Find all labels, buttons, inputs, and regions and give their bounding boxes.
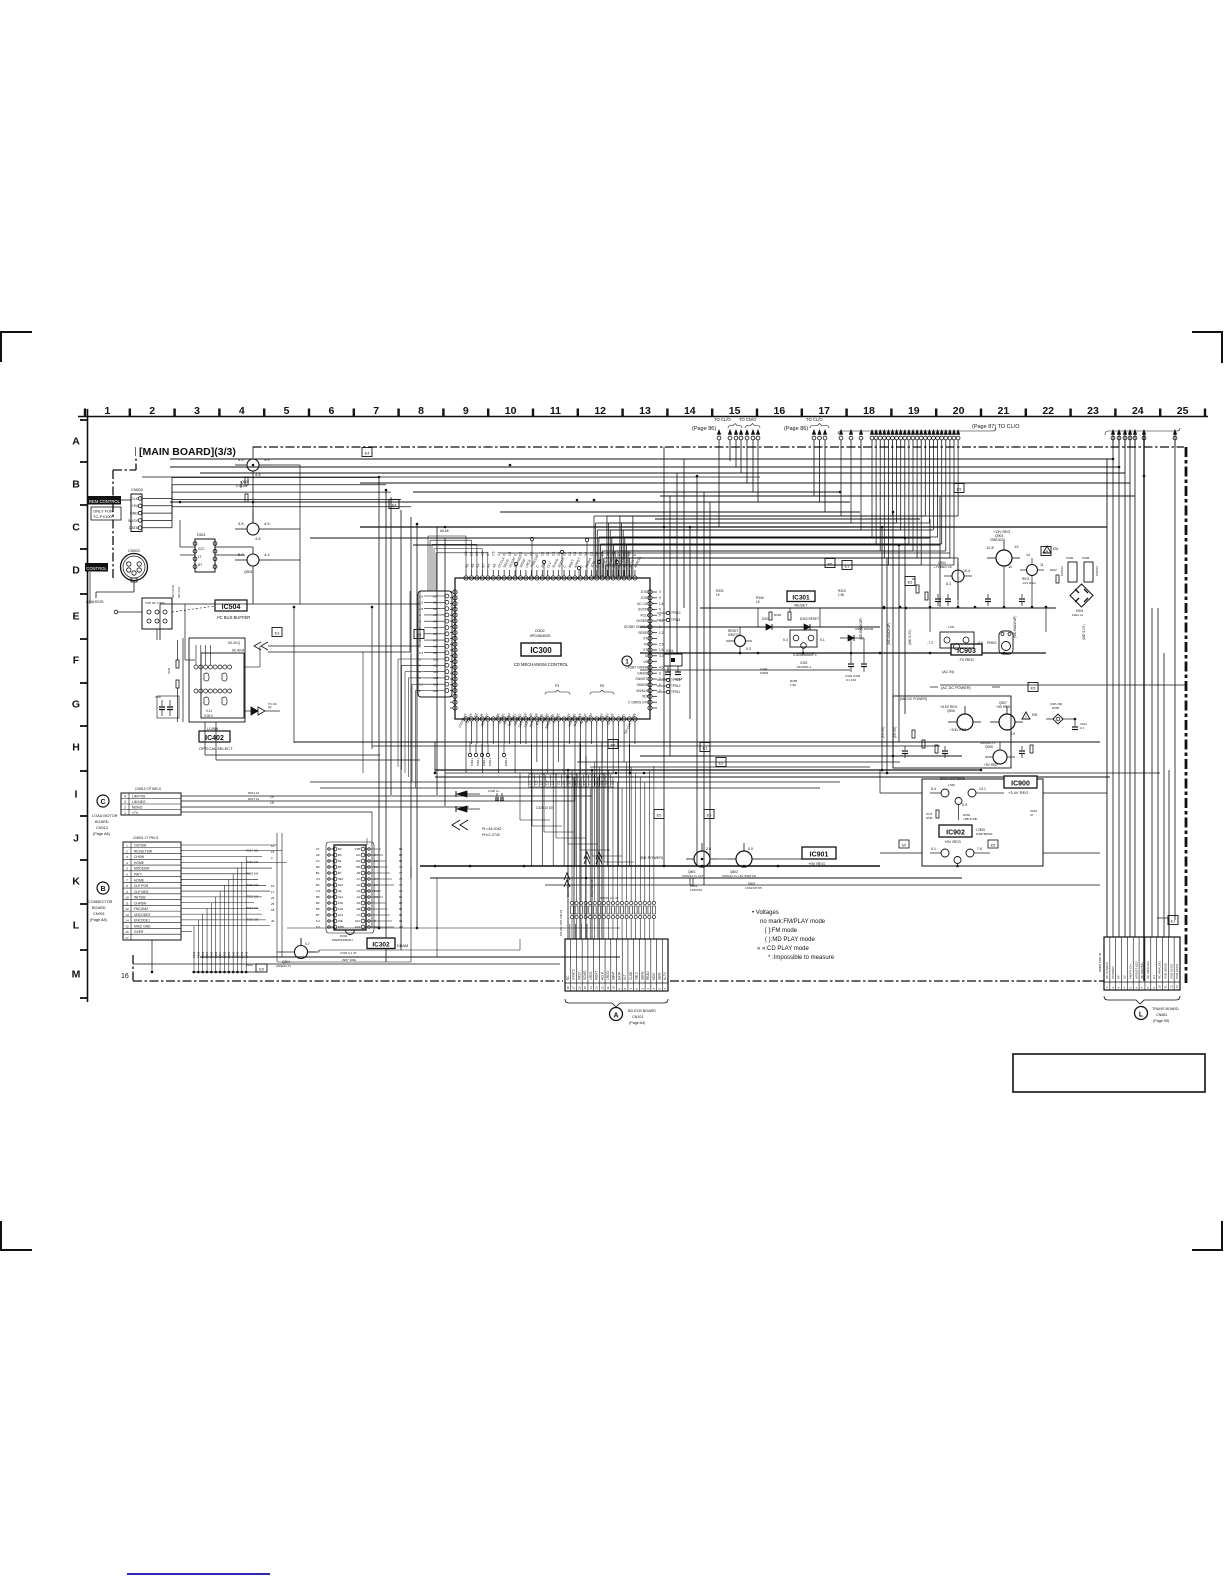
svg-text:(AC DC POWER): (AC DC POWER)	[941, 686, 971, 690]
svg-text:83: 83	[399, 907, 403, 911]
svg-text:A3: A3	[356, 889, 360, 893]
svg-text:A7: A7	[356, 877, 360, 881]
svg-text:(Page 86): (Page 86)	[692, 426, 716, 432]
svg-text:HOME: HOME	[134, 861, 145, 865]
svg-text:0: 0	[659, 596, 661, 600]
reset area resistors	[716, 589, 874, 687]
svg-text:1A0: 1A0	[338, 901, 344, 905]
IC302 right row wires	[367, 838, 394, 927]
left ruler line	[87, 409, 89, 1002]
svg-text:BUSY: BUSY	[128, 519, 138, 523]
svg-text:R937: R937	[218, 951, 222, 958]
svg-text:+5V RED: +5V RED	[984, 763, 998, 767]
connector A circled letter	[610, 1008, 623, 1021]
transistor Q904	[934, 561, 972, 586]
svg-text:E5: E5	[1044, 551, 1049, 555]
crop mark top-left	[1, 332, 32, 362]
connector A table	[565, 939, 668, 991]
svg-text:3.9: 3.9	[1010, 732, 1015, 736]
svg-text:AC ANALOG: AC ANALOG	[1146, 961, 1150, 979]
svg-text:TP902: TP902	[476, 758, 480, 767]
svg-text:TC-PX100: TC-PX100	[93, 514, 112, 519]
svg-text:D302 RESET: D302 RESET	[800, 617, 819, 621]
svg-text:C40: C40	[155, 695, 161, 699]
svg-text:CN901: CN901	[93, 912, 105, 916]
svg-text:E4: E4	[365, 452, 370, 456]
svg-text:5.3: 5.3	[783, 638, 788, 642]
svg-text:TO CN/O: TO CN/O	[739, 417, 757, 422]
svg-text:CLOK: CLOK	[629, 970, 633, 980]
svg-text:-7V REG: -7V REG	[958, 657, 974, 662]
svg-text:4.5: 4.5	[264, 521, 270, 526]
IC300 bottom deep wires	[466, 726, 635, 866]
svg-text:SBMT: SBMT	[612, 971, 616, 980]
svg-text:4.4: 4.4	[628, 551, 632, 556]
svg-text:WDAT: WDAT	[595, 971, 599, 980]
connector A rotated signal names	[566, 969, 667, 989]
connector L table	[1104, 937, 1180, 990]
svg-text:+5.5V REG: +5.5V REG	[950, 728, 967, 732]
connector B vertical drops with resistors	[192, 857, 248, 974]
svg-text:GN/KS3: GN/KS3	[637, 671, 649, 675]
svg-text:SENS: SENS	[640, 971, 644, 980]
svg-text:I²C BUS BUFFER: I²C BUS BUFFER	[217, 615, 250, 620]
vertical bundle from top group3 into IC300	[594, 447, 958, 577]
svg-text:R501: R501	[239, 481, 243, 489]
svg-text:E51: E51	[1053, 547, 1059, 551]
svg-text:IC900: IC900	[1011, 781, 1030, 788]
svg-text:E2: E2	[611, 744, 616, 748]
svg-text:K: K	[72, 876, 80, 888]
svg-text:2: 2	[124, 806, 126, 810]
svg-text:2907 100u: 2907 100u	[342, 958, 357, 962]
svg-text:12: 12	[600, 986, 604, 990]
svg-text:C: C	[100, 799, 105, 806]
svg-text:IC301: IC301	[792, 595, 810, 602]
extra stair wires below IC300	[435, 742, 634, 862]
svg-text:10E1 x4: 10E1 x4	[1072, 613, 1083, 617]
transistor Q502	[235, 510, 272, 541]
svg-text:G: G	[72, 699, 80, 711]
svg-text:A6 A8: A6 A8	[440, 529, 449, 533]
warning triangle 2	[1022, 712, 1038, 719]
svg-text:IC901: IC901	[810, 852, 829, 859]
wire IC504 area	[114, 585, 181, 640]
svg-text:CD MECHANISM CONTROL: CD MECHANISM CONTROL	[514, 662, 569, 667]
svg-text:CLP POS: CLP POS	[134, 884, 149, 888]
svg-text:7: 7	[373, 405, 379, 417]
notes box bottom-right	[1013, 1054, 1205, 1092]
relay area frame	[922, 779, 1043, 866]
group 1 brace	[728, 424, 742, 429]
svg-text:SUB GH01: SUB GH01	[1169, 963, 1173, 979]
svg-text:E5: E5	[707, 814, 712, 818]
svg-text:S0.40.Q: S0.40.Q	[228, 641, 241, 645]
svg-text:(MD 5.0V): (MD 5.0V)	[908, 630, 912, 645]
svg-text:GVSTO: GVSTO	[638, 608, 650, 612]
svg-text:A9: A9	[433, 651, 437, 655]
svg-text:2.5: 2.5	[600, 780, 604, 785]
svg-text:C2: C2	[645, 654, 649, 658]
IC300 body	[455, 578, 650, 719]
trunk under B	[192, 964, 267, 972]
svg-text:BD ECB BOARD: BD ECB BOARD	[628, 1009, 656, 1013]
IC300 bottom pins	[464, 717, 637, 726]
svg-text:7: 7	[126, 878, 128, 882]
svg-text:BOARD: BOARD	[92, 906, 106, 910]
svg-text:RESET: RESET	[638, 631, 649, 635]
svg-text:4.6: 4.6	[611, 551, 615, 556]
resistor array above connector A	[566, 762, 656, 939]
AC DC POWER header label	[930, 686, 1000, 690]
PL frequency note	[482, 827, 502, 837]
transistor Q905 pnp	[1020, 553, 1044, 585]
svg-text:2V: 2V	[316, 859, 320, 863]
IC900 area details	[926, 805, 1038, 822]
svg-text:1.5K: 1.5K	[790, 683, 796, 687]
IC903 label	[951, 644, 982, 662]
svg-text:C1: C1	[1152, 975, 1156, 979]
double chevron out	[244, 702, 280, 715]
svg-text:(BD POWER): (BD POWER)	[640, 856, 664, 860]
svg-text:(MD 5.0V): (MD 5.0V)	[1082, 625, 1086, 640]
svg-text:( ):MD PLAY mode: ( ):MD PLAY mode	[765, 937, 815, 943]
IC902 label	[939, 825, 993, 844]
svg-text:A8: A8	[433, 645, 437, 649]
connector C circled letter	[97, 795, 109, 807]
svg-text:UN9211-TL: UN9211-TL	[276, 964, 292, 968]
horizontal trunk bus lower block	[133, 866, 1100, 964]
svg-text:R926 10k: R926 10k	[246, 917, 259, 921]
svg-text:1000/16: 1000/16	[1060, 565, 1064, 576]
svg-text:+9V REG: +9V REG	[808, 861, 825, 866]
svg-text:A10: A10	[433, 657, 439, 661]
CONTROL label	[85, 563, 108, 572]
vertical bundle from top group1	[719, 447, 758, 527]
svg-text:A11: A11	[433, 664, 438, 668]
svg-text:F: F	[73, 655, 80, 667]
svg-text:JOG0: JOG0	[641, 596, 650, 600]
power block caps	[902, 746, 1025, 758]
svg-text:2.1: 2.1	[590, 551, 594, 556]
crop mark top-right	[1192, 332, 1222, 363]
vertical bundle mid to connector A	[568, 742, 602, 939]
svg-text:24: 24	[271, 896, 275, 900]
svg-text:13: 13	[1014, 544, 1019, 549]
svg-text:MISC GND: MISC GND	[134, 924, 151, 928]
svg-text:10504: 10504	[760, 671, 769, 675]
svg-text:A7: A7	[316, 847, 320, 851]
svg-text:17: 17	[125, 936, 129, 940]
svg-text:Y00: Y00	[643, 642, 649, 646]
cap C911	[1072, 718, 1087, 730]
svg-text:3.1: 3.1	[579, 551, 583, 556]
up chevrons near connector A	[564, 852, 602, 887]
svg-text:C326 1u: C326 1u	[488, 789, 500, 793]
svg-text:CN901 17 PIN-S: CN901 17 PIN-S	[133, 836, 159, 840]
svg-text:IC302: IC302	[372, 942, 390, 949]
svg-text:0: 0	[524, 554, 528, 556]
svg-text:BOARD: BOARD	[95, 820, 109, 824]
diode D302	[796, 617, 820, 630]
svg-text:17: 17	[818, 405, 830, 417]
IC300 bottom pin labels	[457, 712, 637, 735]
svg-text:E51: E51	[1032, 713, 1038, 717]
svg-text:TO CL/O: TO CL/O	[714, 417, 731, 422]
svg-text:13: 13	[1175, 985, 1179, 989]
svg-text:4.6: 4.6	[659, 666, 664, 670]
svg-text:3.2: 3.2	[659, 654, 664, 658]
svg-text:(Page A8): (Page A8)	[93, 832, 111, 836]
svg-text:(Page 86): (Page 86)	[784, 426, 808, 432]
svg-text:9: 9	[126, 890, 128, 894]
svg-text:A7: A7	[356, 913, 360, 917]
IC900 regulator symbol	[930, 777, 990, 807]
left mid vertical wires	[362, 652, 364, 773]
svg-text:R920 10k: R920 10k	[246, 883, 259, 887]
svg-text:3: 3	[124, 800, 126, 804]
svg-text:1.8: 1.8	[659, 648, 664, 652]
svg-text:B: B	[72, 479, 80, 491]
svg-text:MSM514400DJ: MSM514400DJ	[332, 938, 353, 942]
svg-text:« »:CD PLAY mode: « »:CD PLAY mode	[757, 946, 809, 952]
svg-text:IC300: IC300	[530, 646, 552, 655]
svg-text:!: !	[1025, 715, 1026, 719]
svg-text:0: 0	[659, 683, 661, 687]
svg-text:M-7V: M-7V	[663, 972, 667, 980]
connector L brace	[1104, 996, 1180, 1004]
wires DIP to bundle	[180, 520, 253, 555]
svg-text:E2: E2	[417, 634, 422, 638]
svg-text:0: 0	[502, 554, 506, 556]
svg-text:94: 94	[399, 913, 403, 917]
svg-text:10: 10	[612, 986, 616, 990]
svg-text:3: 3	[194, 405, 200, 417]
svg-text:16: 16	[774, 405, 786, 417]
svg-text:B1: B1	[356, 859, 360, 863]
IC300 top pins	[464, 570, 637, 580]
svg-text:0: 0	[633, 554, 637, 556]
svg-text:12: 12	[594, 405, 606, 417]
power area caps small	[935, 594, 1025, 606]
svg-text:14: 14	[589, 986, 593, 990]
DRAM loop wires	[277, 833, 620, 962]
svg-text:C304 0.1 4T: C304 0.1 4T	[340, 951, 357, 955]
svg-text:XCMD: XCMD	[583, 970, 587, 980]
svg-text:74: 74	[399, 865, 403, 869]
svg-text:HOME: HOME	[134, 878, 145, 882]
svg-text:17: 17	[271, 890, 275, 894]
svg-text:1A6: 1A6	[338, 907, 344, 911]
junction dots on trunks	[151, 458, 1146, 974]
svg-text:R935: R935	[210, 951, 214, 958]
svg-text:A0: A0	[433, 594, 437, 598]
svg-text:RF: RF	[268, 706, 272, 710]
svg-text:5.1: 5.1	[820, 638, 825, 642]
transistor Q801	[682, 843, 718, 878]
connector C caption	[92, 814, 118, 836]
transistor Q802	[722, 843, 760, 878]
svg-text:2.8: 2.8	[419, 607, 424, 611]
power area resistors small	[912, 568, 1059, 600]
MAIN BOARD title	[136, 440, 252, 458]
svg-text:R943: R943	[244, 951, 248, 958]
svg-text:4.6: 4.6	[399, 925, 403, 929]
svg-text:CN502: CN502	[128, 549, 140, 553]
svg-text:VTUNER: VTUNER	[1111, 966, 1115, 979]
svg-text:D302: D302	[535, 628, 545, 633]
svg-text:4.8: 4.8	[595, 551, 599, 556]
svg-text:2.5: 2.5	[659, 642, 664, 646]
IC402 left parts R-ladder	[167, 638, 183, 722]
svg-text:RA901 0.1 4T: RA901 0.1 4T	[600, 896, 619, 900]
svg-text:5.2: 5.2	[316, 925, 320, 929]
svg-text:TP914: TP914	[671, 618, 681, 622]
vertical bundle left of IC300	[379, 477, 445, 962]
connector B row wires	[181, 845, 287, 931]
svg-text:ONLY FOR: ONLY FOR	[93, 509, 113, 514]
IC302 body	[326, 842, 374, 935]
connector B bottom stub	[151, 940, 153, 972]
svg-text:11: 11	[1040, 563, 1044, 567]
svg-text:MC306K-1: MC306K-1	[797, 665, 812, 669]
svg-text:S0.40.M: S0.40.M	[232, 649, 245, 653]
svg-text:E1: E1	[1171, 920, 1176, 924]
svg-text:CN101: CN101	[632, 1015, 643, 1019]
svg-text:A10: A10	[338, 883, 344, 887]
svg-text:READ: READ	[646, 970, 650, 980]
svg-text:A5: A5	[433, 626, 437, 630]
svg-text:IC402: IC402	[205, 735, 224, 742]
svg-text:4.4: 4.4	[264, 457, 270, 462]
svg-text:13.1: 13.1	[979, 787, 986, 791]
svg-text:25: 25	[1177, 405, 1189, 417]
svg-text:C GN/KS GTO: C GN/KS GTO	[628, 700, 649, 704]
diode bridge D901	[1070, 584, 1093, 617]
svg-text:20: 20	[953, 405, 965, 417]
connector A feed wires	[570, 924, 587, 939]
svg-text:PATY: PATY	[134, 873, 143, 877]
svg-text:1: 1	[124, 811, 126, 815]
svg-text:15: 15	[125, 924, 129, 928]
svg-text:TP911: TP911	[671, 690, 680, 694]
IC302 left pins	[316, 847, 344, 929]
svg-text:CLK: CLK	[131, 497, 139, 501]
svg-text:8: 8	[418, 405, 424, 417]
svg-text:R304: R304	[774, 613, 782, 617]
svg-text:GND: GND	[130, 512, 138, 516]
svg-text:6: 6	[328, 405, 334, 417]
svg-text:R924 10k: R924 10k	[246, 906, 259, 910]
svg-text:1.2: 1.2	[659, 631, 664, 635]
svg-text:A14: A14	[433, 683, 439, 687]
IC300 top pin labels	[464, 553, 642, 568]
svg-text:I: I	[75, 789, 78, 801]
svg-text:J: J	[73, 833, 79, 845]
REM CONTROL label	[88, 496, 121, 505]
svg-text:GVER: GVER	[134, 930, 144, 934]
svg-text:+5V REG: +5V REG	[944, 839, 961, 844]
left low area wires	[90, 465, 420, 660]
svg-text:AC ANALOG: AC ANALOG	[1158, 961, 1162, 979]
crystal X301	[662, 649, 683, 681]
svg-text:AC DIGITAL: AC DIGITAL	[1140, 962, 1144, 979]
transistor Q903	[986, 530, 1020, 569]
svg-text:13: 13	[125, 913, 129, 917]
svg-text:R933: R933	[201, 951, 205, 958]
svg-text:DATA: DATA	[129, 526, 139, 530]
svg-text:1: 1	[104, 405, 110, 417]
svg-text:A3: A3	[433, 613, 437, 617]
svg-text:(MD DC POWER): (MD DC POWER)	[900, 697, 927, 701]
svg-text:(Page A3): (Page A3)	[629, 1021, 645, 1025]
svg-text:19: 19	[908, 405, 920, 417]
svg-text:23: 23	[1087, 405, 1099, 417]
svg-text:CN503: CN503	[131, 488, 143, 492]
svg-text:R918 10k: R918 10k	[246, 871, 259, 875]
svg-text:TOP OF VIEW: TOP OF VIEW	[145, 601, 165, 605]
svg-text:TP903: TP903	[482, 758, 486, 767]
svg-text:15: 15	[583, 986, 587, 990]
svg-text:GN/KL/O: GN/KL/O	[636, 689, 649, 693]
IC402 label	[199, 731, 233, 751]
IC402 caps	[155, 695, 179, 718]
svg-text:AC CUT: AC CUT	[637, 602, 649, 606]
svg-text:4.4: 4.4	[264, 552, 270, 557]
svg-text:0: 0	[659, 677, 661, 681]
IC300 address ladder block	[418, 591, 452, 697]
svg-text:5: 5	[126, 867, 128, 871]
IC300 left pins	[450, 590, 457, 710]
svg-text:NJM7805FA: NJM7805FA	[976, 832, 993, 836]
svg-text:FM PV CH: FM PV CH	[1128, 964, 1132, 979]
IC901 label	[802, 847, 836, 866]
connector L caption	[1152, 1007, 1179, 1023]
wire transistor column	[252, 471, 254, 523]
svg-text:C325 10 50: C325 10 50	[536, 806, 553, 810]
connector L rotated signal names	[1105, 961, 1179, 989]
svg-text:A6: A6	[433, 632, 437, 636]
svg-text:4.5: 4.5	[255, 472, 261, 477]
svg-text:C318: C318	[675, 677, 683, 681]
svg-text:15: 15	[270, 801, 274, 805]
connector B table	[123, 836, 181, 940]
svg-text:(CK 9V): (CK 9V)	[881, 727, 885, 738]
reset area caps	[845, 658, 867, 682]
svg-text:R917 1k: R917 1k	[248, 797, 260, 801]
svg-text:DRAM: DRAM	[397, 944, 408, 948]
svg-text:4.5: 4.5	[255, 536, 261, 541]
svg-text:0: 0	[659, 625, 661, 629]
svg-text:(MD BACKUP): (MD BACKUP)	[887, 623, 891, 645]
svg-text:A5: A5	[356, 901, 360, 905]
IC300 inner labels	[514, 628, 569, 667]
svg-text:8.3: 8.3	[946, 582, 951, 586]
svg-text:2.8: 2.8	[419, 594, 424, 598]
svg-text:C916 RB6 NP: C916 RB6 NP	[590, 879, 594, 897]
IC300 top pin voltage values	[464, 551, 637, 556]
svg-text:0: 0	[659, 613, 661, 617]
svg-text:4: 4	[126, 861, 128, 865]
top entry pin CN group2	[812, 430, 827, 449]
transistor Q501	[235, 447, 272, 488]
svg-text:3.1: 3.1	[541, 551, 545, 556]
svg-text:6: 6	[126, 873, 128, 877]
svg-text:18: 18	[271, 908, 275, 912]
svg-text:3.1: 3.1	[573, 551, 577, 556]
svg-text:TP910: TP910	[671, 611, 681, 615]
IC300 pin1 mark circled 1	[622, 656, 632, 666]
